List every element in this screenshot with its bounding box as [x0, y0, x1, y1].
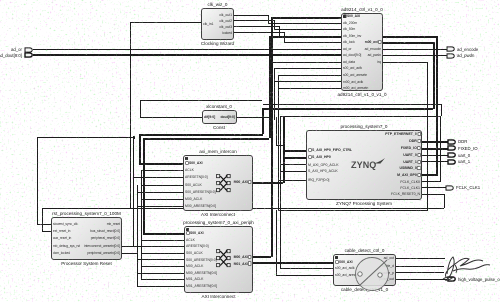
- pin ad9214_ctrl_0 ad_encode: [365, 47, 381, 51]
- wire periph M00_ARESETN feed: [137, 273, 184, 274]
- wire axi_mem ARESETN feed: [133, 177, 183, 178]
- label cable_detect_ctrl_0 subtitle: [341, 287, 388, 292]
- wire periph S00_AXI feed: [143, 233, 184, 235]
- pin processing_system7_0 PTP_ETHERNET_0: [385, 132, 420, 136]
- wire clk_out4 seg c: [284, 42, 341, 43]
- wire periph S00_ACLK feed: [141, 253, 184, 254]
- block xlconstant_0: [202, 110, 237, 124]
- wire cable out net a: [396, 258, 445, 259]
- wire GP0 drop x268: [269, 36, 271, 138]
- pin axi_mem_intercon M00_ACLK: [185, 197, 202, 201]
- wire reset bottom run y208: [42, 208, 444, 209]
- port FIXED_IO: [447, 145, 456, 151]
- pin ad9214_ctrl_0 m00_axi_aclk: [343, 80, 363, 84]
- wire ad9214 S00_AXI feed: [271, 17, 342, 19]
- wire periph M01_ACLK feed: [141, 279, 184, 280]
- port uart_0: [447, 152, 456, 158]
- wire periph S00_ARESETN feed: [137, 259, 184, 260]
- pin ad9214_ctrl_0 clk_50m_inv: [343, 34, 361, 38]
- wire FIXED_IO net: [422, 148, 449, 150]
- wire m00_axi run y133: [139, 134, 263, 136]
- pin processing_system7_0 FCLK_CLK0: [400, 180, 420, 184]
- wire clk_out2 seg c: [274, 29, 341, 30]
- port high_voltage_pulse_out: [447, 276, 456, 282]
- wire rstclk run y137: [37, 137, 133, 138]
- wire periph M01_ARESETN feed: [137, 286, 184, 287]
- pin cable_detect_ctrl_0 S00_AXI: [335, 260, 353, 264]
- label processing_system7_0_axi_periph subtitle: [202, 294, 236, 299]
- wire uart_0 net: [422, 155, 449, 156]
- wire M00_AXI stub: [253, 182, 283, 184]
- pin processing_system7_0_axi_periph S00_AXI: [186, 231, 204, 235]
- pin processing_system7_0_axi_periph M00_ARESETN[0:0]: [186, 271, 217, 275]
- pin ad9214_ctrl_0 irq: [377, 60, 381, 64]
- wire aresetn drop x278: [278, 75, 279, 210]
- wire m00_axi stub: [383, 42, 433, 44]
- pin xlconstant_0 dout: [220, 115, 235, 119]
- label ad9214_ctrl_0 title: [341, 7, 383, 12]
- label rst_processing_system7_0_100M subtitle: [61, 261, 112, 266]
- wire axi_mem ACLK feed: [141, 170, 183, 171]
- pin axi_mem_intercon ARESETN[0:0]: [185, 175, 208, 179]
- pin ad9214_ctrl_0 ad_or: [343, 47, 351, 51]
- wire m00_axi right drop x433: [433, 42, 435, 109]
- pin processing_system7_0_axi_periph M01_ACLK: [186, 277, 203, 281]
- wire clk_in1 net vertical: [130, 22, 131, 208]
- label clk_wiz_0 subtitle: [201, 41, 234, 46]
- pin processing_system7_0 M_AXI_GP0_ACLK: [308, 163, 339, 167]
- pin processing_system7_0 FCLK_CLK1: [400, 186, 420, 190]
- pin rst_processing_system7_0_100M interconnect_aresetn[0:0]: [84, 244, 120, 248]
- pin clk_wiz_0 clk_out2: [219, 19, 232, 23]
- wire const loop left: [140, 100, 141, 118]
- pin ad9214_ctrl_0 ad_dout[9:0]: [343, 53, 361, 57]
- wire clk_out1 seg b: [268, 15, 269, 23]
- wire M01_AXI to cable S00_AXI: [253, 262, 333, 264]
- pin processing_system7_0 S_AXI_HP0_FIFO_CTRL: [308, 148, 352, 152]
- pin rst_processing_system7_0_100M mb_reset: [107, 222, 120, 226]
- wire ext_reset_in feed: [42, 231, 51, 232]
- wire clk_out1 seg a: [234, 15, 268, 16]
- block clk_wiz_0: [201, 8, 234, 40]
- wire irq right drop: [427, 62, 428, 211]
- wire clk_out3 seg a: [234, 26, 279, 27]
- pin processing_system7_0_axi_periph ARESETN[0:0]: [186, 244, 209, 248]
- icon axi_mem_intercon status: [185, 157, 189, 161]
- pin axi_mem_intercon S00_ACLK: [185, 183, 202, 187]
- icon ZYNQ logo: [351, 160, 385, 171]
- wire S_AXI_HP0_FIFO_CTRL feed: [283, 150, 306, 152]
- wire interconnect_aresetn run: [122, 246, 184, 247]
- pin axi_mem_intercon M00_AXI: [234, 180, 251, 184]
- wire M_AXI_GP0_ACLK feed: [280, 164, 306, 165]
- wire M00_ARESETN feed: [137, 206, 183, 207]
- wire high_voltage_pulse net: [396, 279, 447, 280]
- wire M_AXI_GP0 stub: [422, 174, 437, 176]
- pin rst_processing_system7_0_100M mb_debug_sys_rst: [53, 244, 80, 248]
- label axi_mem_intercon subtitle: [201, 212, 235, 217]
- pin processing_system7_0 FCLK_RESET0_N: [391, 192, 420, 196]
- wire axi_mem S00_AXI feed: [139, 163, 184, 165]
- pin processing_system7_0_axi_periph M01_AXI: [234, 262, 251, 266]
- pin rst_processing_system7_0_100M peripheral_reset[0:0]: [91, 236, 120, 240]
- label cable_detect_ctrl_0 title: [345, 248, 385, 253]
- wire m00_axi drop x139: [139, 134, 141, 164]
- wire clk_out4 seg b: [284, 32, 285, 42]
- wire HP0 riser x283: [283, 116, 285, 183]
- wire m00_axi bus run y108: [262, 108, 433, 110]
- pin processing_system7_0_axi_periph M00_ACLK: [186, 264, 203, 268]
- icon axi_mem_intercon crossbar: [216, 174, 231, 193]
- wire ext_reset drop x42: [42, 208, 43, 231]
- wire fclk0 drop x280: [280, 116, 281, 269]
- wire periph M00_ACLK feed: [141, 266, 184, 267]
- wire cable aresetn feed: [276, 275, 333, 276]
- pin processing_system7_0 M_AXI_GP0: [397, 173, 420, 177]
- pin ad9214_ctrl_0 ad_pwdn: [368, 53, 381, 57]
- pin ad9214_ctrl_0 m00_axi: [365, 40, 381, 44]
- pin ad9214_ctrl_0 s00_axi_aresetn: [343, 73, 367, 77]
- wire GP0 top run y36: [269, 36, 439, 38]
- label clk_wiz_0 title: [208, 2, 228, 7]
- pin cable_detect_ctrl_0 cable_p: [382, 271, 394, 275]
- wire GP0 drop x143: [143, 138, 145, 233]
- wire aresetn riser x137: [137, 185, 138, 286]
- icon cable_detect logo: [352, 256, 394, 296]
- pin ad9214_ctrl_0 clk_200m: [343, 21, 357, 25]
- pin cable_detect_ctrl_0 ad_out: [384, 256, 394, 260]
- pin rst_processing_system7_0_100M aux_reset_in: [53, 236, 71, 240]
- wire cable aresetn riser: [276, 210, 277, 276]
- block ad9214_ctrl_0: [341, 13, 383, 91]
- wire fifo drop x276: [276, 117, 277, 145]
- pin clk_wiz_0 clk_in1: [203, 22, 214, 26]
- pin axi_mem_intercon M00_ARESETN[0:0]: [185, 204, 216, 208]
- wire GP0 run y138: [143, 138, 269, 140]
- pin processing_system7_0 IRQ_F2P[0:0]: [308, 178, 329, 182]
- port DDR: [447, 139, 456, 145]
- wire junction dot a: [133, 136, 135, 139]
- wire clk_in1 net horizontal: [130, 22, 201, 23]
- pin processing_system7_0_axi_periph S00_ACLK: [186, 251, 203, 255]
- pin ad9214_ctrl_0 S00_AXI: [343, 14, 360, 18]
- pin axi_mem_intercon ACLK: [185, 168, 194, 172]
- label processing_system7_0 subtitle: [336, 201, 392, 206]
- wire reset right drop x444: [444, 194, 445, 208]
- wire reset stub: [422, 194, 444, 195]
- port ad_dout: [24, 52, 33, 58]
- pin processing_system7_0 S_AXI_HP0: [308, 155, 331, 159]
- wire irq stub: [383, 62, 427, 63]
- wire clk net y104: [263, 104, 441, 105]
- pin ad9214_ctrl_0 s00_axi_aclk: [343, 66, 362, 70]
- block rst_processing_system7_0_100M: [51, 217, 122, 260]
- wire const dout run: [237, 117, 271, 118]
- block processing_system7_0: [306, 130, 422, 200]
- wire m00_axi drop x262: [262, 108, 264, 134]
- wire S_AXI_HP0 feed: [283, 157, 306, 159]
- wire m00_axi_aclk feed: [274, 81, 341, 82]
- wire S00_AXI riser: [271, 17, 273, 257]
- pin cable_detect_ctrl_0 s00_axi_aresetn: [335, 273, 360, 277]
- label ad9214_ctrl_0 subtitle: [337, 92, 386, 97]
- pin processing_system7_0 UART_0: [403, 153, 420, 157]
- wire ad_data drop: [272, 62, 273, 117]
- wire fclk0 stub: [422, 181, 440, 182]
- pin cable_detect_ctrl_0 cable_d: [382, 264, 394, 268]
- wire ad_dout bus: [33, 54, 341, 56]
- watermark signature: [438, 252, 496, 282]
- wire GP0 riser right x437: [436, 36, 438, 176]
- pin cable_detect_ctrl_0 s00_axi_aclk: [335, 266, 355, 270]
- icon axi_periph status: [186, 228, 190, 232]
- wire fifo run y145: [276, 145, 283, 146]
- icon ad9214 status: [343, 15, 347, 19]
- pin processing_system7_0 FIXED_IO: [401, 146, 420, 150]
- wire S00_ACLK feed: [141, 185, 183, 186]
- pin processing_system7_0_axi_periph M01_ARESETN[0:0]: [186, 284, 217, 288]
- wire rstclk drop x37: [37, 137, 38, 224]
- pin axi_mem_intercon S00_ARESETN[0:0]: [185, 190, 216, 194]
- pin ad9214_ctrl_0 clk_50m: [343, 27, 355, 31]
- wire ad_or net: [33, 49, 341, 50]
- pin rst_processing_system7_0_100M slowest_sync_clk: [53, 222, 78, 226]
- block processing_system7_0_axi_periph: [184, 226, 253, 293]
- wire aclk drop x274: [274, 68, 275, 120]
- wire S00_ARESETN feed: [137, 192, 183, 193]
- wire M00_ACLK feed: [141, 199, 183, 200]
- wire DDR net: [422, 141, 449, 143]
- wire FCLK_CLK1 net: [422, 187, 448, 188]
- icon cable_detect status: [335, 256, 339, 260]
- wire clk_out3 seg b: [279, 26, 280, 36]
- port ad_pwdn: [446, 53, 455, 59]
- pin processing_system7_0 UART_1: [403, 160, 420, 164]
- label rst_processing_system7_0_100M title: [52, 211, 121, 216]
- port uart_1: [447, 159, 456, 165]
- pin processing_system7_0_axi_periph S00_ARESETN[0:0]: [186, 258, 217, 262]
- pin clk_wiz_0 clk_out1: [219, 13, 232, 17]
- pin processing_system7_0_axi_periph ACLK: [186, 238, 195, 242]
- wire clk_out2 seg a: [234, 20, 274, 21]
- pin rst_processing_system7_0_100M peripheral_aresetn[0:0]: [87, 251, 120, 255]
- wire cable out net b: [396, 266, 444, 267]
- wire m00_axi_aresetn feed: [278, 88, 341, 89]
- wire ad_data feed: [272, 62, 341, 63]
- label processing_system7_0 title: [341, 124, 388, 129]
- wire fclk0 run y115: [280, 116, 440, 117]
- wire s00_axi_aclk feed: [274, 68, 341, 69]
- wire clk_out3 seg c: [279, 36, 341, 37]
- pin ad9214_ctrl_0 m00_axi_aresetn: [343, 86, 368, 90]
- pin processing_system7_0 USBIND_0: [400, 166, 421, 170]
- wire clk_out4 seg a: [234, 32, 284, 33]
- wire periph M00_AXI stub: [253, 256, 271, 258]
- label processing_system7_0_axi_periph title: [183, 220, 254, 225]
- label axi_mem_intercon title: [199, 149, 237, 154]
- port FCLK_CLK1: [445, 185, 454, 191]
- wire IRQ_F2P feed: [278, 180, 307, 181]
- wire aresetn riser x133: [133, 137, 134, 246]
- wire cable out net c: [396, 272, 444, 273]
- pin rst_processing_system7_0_100M dcm_locked: [53, 251, 70, 255]
- icon axi_periph crossbar: [216, 249, 231, 268]
- wire slowest_sync_clk feed: [37, 224, 51, 225]
- pin axi_mem_intercon S00_AXI: [185, 161, 203, 165]
- port ad_encode: [446, 46, 455, 52]
- wire const din run: [140, 117, 203, 118]
- wire aclk riser x141: [141, 170, 142, 280]
- pin rst_processing_system7_0_100M bus_struct_reset[0:0]: [90, 229, 120, 233]
- label xlconstant_0 title: [206, 104, 232, 109]
- pin ad9214_ctrl_0 ad_data: [343, 60, 355, 64]
- pin processing_system7_0 S_AXI_HP0_ACLK: [308, 169, 338, 173]
- wire ad_encode net: [383, 49, 447, 50]
- wire periph ACLK feed: [141, 240, 184, 241]
- wire fclk0 riser x440: [440, 116, 441, 183]
- pin processing_system7_0 DDR: [409, 139, 420, 143]
- wire const loop top: [140, 100, 262, 101]
- wire S_AXI_HP0_ACLK feed: [280, 171, 306, 172]
- pin rst_processing_system7_0_100M ext_reset_in: [53, 229, 70, 233]
- block cable_detect_ctrl_0: [333, 254, 396, 286]
- pin processing_system7_0_axi_periph M00_AXI: [234, 255, 251, 259]
- wire clk_out1 seg c: [268, 23, 341, 24]
- pin clk_wiz_0 locked: [222, 31, 232, 35]
- wire peripheral_aresetn stub: [122, 253, 138, 254]
- wire uart_1 net: [422, 161, 449, 162]
- pin ad9214_ctrl_0 clk_lock: [343, 40, 355, 44]
- wire s00_axi_aresetn feed: [278, 75, 341, 76]
- block axi_mem_intercon: [183, 155, 253, 211]
- wire cable aclk feed: [280, 268, 333, 269]
- port ad_or: [24, 47, 33, 53]
- label xlconstant_0 subtitle: [213, 125, 225, 130]
- wire irq bottom run: [278, 210, 428, 211]
- pin clk_wiz_0 clk_out3: [219, 25, 232, 29]
- pin xlconstant_0 dif: [204, 115, 215, 119]
- pin cable_detect_ctrl_0 pulse_out: [379, 277, 394, 281]
- wire clk_out2 seg b: [274, 20, 275, 29]
- wire clk net corner x441: [441, 104, 442, 116]
- wire ad_pwdn net: [383, 55, 447, 56]
